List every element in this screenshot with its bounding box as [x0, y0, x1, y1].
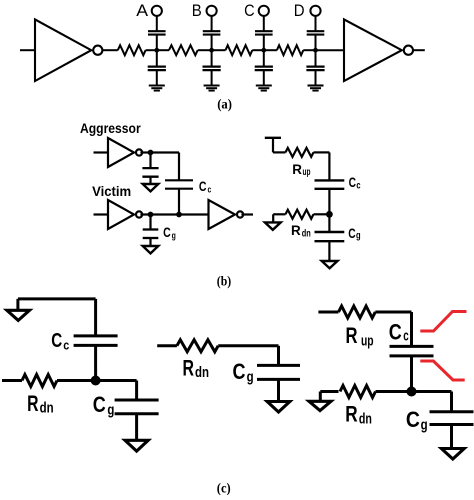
svg-text:Victim: Victim [92, 183, 131, 199]
svg-text:c: c [356, 181, 361, 192]
svg-text:g: g [172, 231, 176, 241]
svg-text:C: C [349, 174, 356, 190]
svg-text:g: g [421, 418, 428, 434]
svg-text:C: C [244, 1, 255, 20]
svg-text:up: up [361, 334, 374, 350]
svg-text:(c): (c) [217, 482, 231, 495]
svg-text:C: C [348, 225, 355, 241]
svg-text:R: R [27, 391, 38, 416]
svg-text:g: g [107, 403, 114, 419]
svg-text:R: R [345, 401, 357, 426]
svg-text:g: g [356, 231, 361, 242]
svg-text:R: R [292, 161, 302, 177]
svg-text:D: D [294, 1, 305, 20]
svg-text:C: C [51, 330, 62, 352]
svg-text:C: C [199, 178, 207, 194]
svg-text:c: c [208, 185, 212, 195]
svg-text:C: C [163, 224, 171, 240]
svg-text:R: R [346, 323, 358, 348]
svg-text:R: R [291, 222, 301, 238]
svg-text:Aggressor: Aggressor [80, 120, 141, 136]
svg-text:C: C [233, 359, 246, 384]
svg-text:B: B [192, 1, 202, 20]
svg-text:(a): (a) [217, 98, 232, 113]
svg-text:A: A [136, 1, 148, 20]
svg-text:c: c [63, 338, 69, 353]
svg-text:dn: dn [195, 365, 209, 381]
svg-text:C: C [406, 407, 420, 432]
svg-text:dn: dn [40, 400, 54, 416]
svg-text:g: g [247, 370, 254, 386]
svg-text:dn: dn [302, 228, 311, 239]
svg-text:up: up [303, 167, 311, 178]
svg-text:C: C [389, 319, 402, 344]
svg-text:(b): (b) [217, 275, 232, 290]
svg-text:R: R [183, 356, 195, 381]
svg-text:dn: dn [359, 412, 372, 428]
svg-text:c: c [403, 328, 409, 344]
svg-text:C: C [93, 392, 106, 417]
